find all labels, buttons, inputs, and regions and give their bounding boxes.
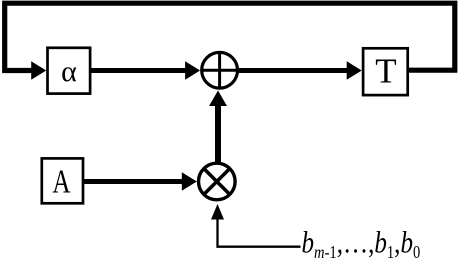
wire alpha to adder [91,68,188,73]
multiplier X [204,169,230,195]
arrowhead into alpha box [31,61,46,79]
svg-text:T: T [375,51,396,90]
adder plus [218,51,221,89]
multiplier circle [199,163,236,200]
wire feedback loop: T output, right vertical, top line, left vertical, into alpha arrow line [5,3,455,70]
svg-text:α: α [61,55,77,88]
wire multiplier to adder [215,103,221,164]
arrowhead into adder bottom [209,91,227,107]
box T [363,48,408,95]
wire A to multiplier [84,179,184,184]
arrowhead into multiplier bottom [211,204,224,220]
label b_{m-1},...,b_1,b_0 [302,226,421,262]
arrowhead into adder [185,61,200,79]
svg-text:A: A [52,163,71,201]
box alpha [48,48,91,94]
wire b input (thin, bottom right) [218,217,301,247]
arrowhead into T [347,61,362,79]
arrowhead into multiplier [182,172,197,190]
adder circle [202,52,238,88]
box A [42,158,83,203]
wire adder to T [239,68,349,73]
